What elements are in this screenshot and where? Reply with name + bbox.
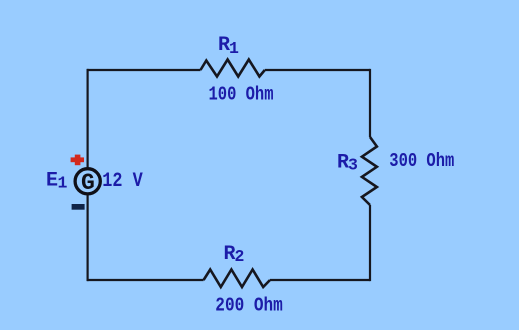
wire bottom-left horizontal segment — [87, 279, 204, 281]
wire top-left horizontal segment — [87, 69, 201, 71]
voltage source E1 letter G — [81, 170, 95, 196]
svg-text:2: 2 — [235, 247, 245, 266]
wire left vertical lower segment — [86, 195, 88, 281]
value label 12 V — [102, 170, 143, 193]
value label 100 Ohm — [209, 84, 274, 106]
svg-text:1: 1 — [229, 39, 239, 58]
value label 200 Ohm — [215, 295, 282, 317]
svg-text:200 Ohm: 200 Ohm — [215, 295, 282, 317]
wire top-right horizontal segment — [265, 69, 370, 71]
resistor R2 — [204, 270, 270, 288]
label E1 — [46, 170, 68, 193]
wire right vertical upper segment — [369, 69, 371, 137]
resistor R3 — [362, 137, 377, 205]
svg-text:12 V: 12 V — [102, 170, 143, 193]
label R3 — [337, 152, 358, 175]
svg-text:1: 1 — [58, 174, 68, 193]
svg-text:E: E — [46, 170, 58, 193]
wire right vertical lower segment — [369, 205, 371, 281]
svg-text:3: 3 — [348, 156, 358, 175]
wire left vertical upper segment — [86, 69, 88, 168]
plus polarity mark — [71, 155, 84, 166]
svg-text:300 Ohm: 300 Ohm — [389, 150, 454, 172]
voltage source E1 circle — [75, 169, 100, 194]
label R1 — [218, 34, 239, 58]
wire bottom-right horizontal segment — [270, 279, 370, 281]
label R2 — [224, 243, 245, 266]
resistor R1 — [201, 60, 265, 77]
minus polarity mark — [72, 204, 85, 210]
svg-text:G: G — [81, 170, 95, 196]
value label 300 Ohm — [389, 150, 454, 172]
svg-text:100 Ohm: 100 Ohm — [209, 84, 274, 106]
